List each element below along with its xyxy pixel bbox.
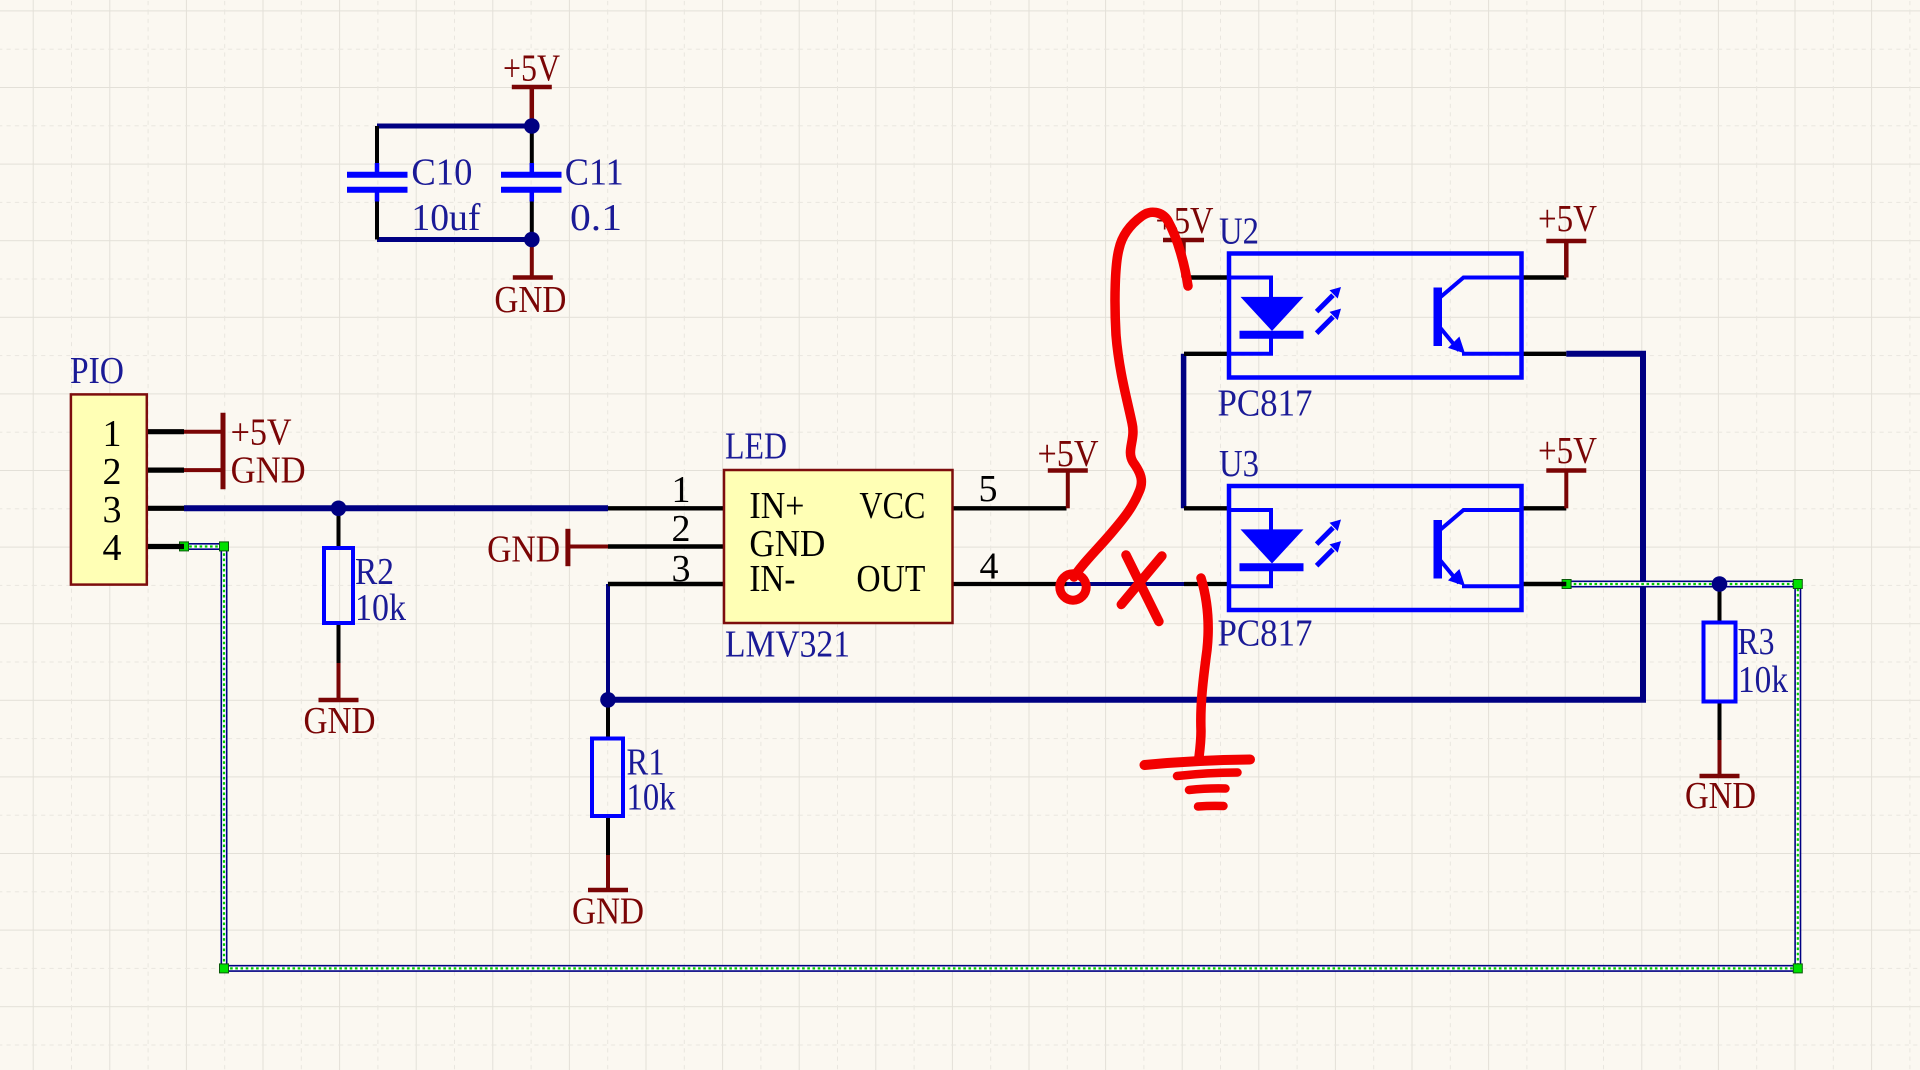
svg-text:+5V: +5V [1538,430,1597,472]
svg-text:VCC: VCC [859,485,925,527]
svg-text:2: 2 [103,451,122,493]
svg-text:C10: C10 [411,152,472,194]
svg-text:GND: GND [1685,775,1756,817]
svg-text:4: 4 [103,527,122,569]
svg-text:3: 3 [672,548,691,590]
svg-text:PC817: PC817 [1218,613,1313,655]
svg-text:U2: U2 [1219,211,1259,253]
svg-text:0.1: 0.1 [570,197,622,239]
svg-text:U3: U3 [1219,443,1259,485]
svg-text:2: 2 [672,508,691,550]
svg-text:PC817: PC817 [1218,383,1313,425]
svg-text:IN+: IN+ [749,485,804,527]
svg-text:OUT: OUT [856,558,925,600]
svg-text:3: 3 [103,489,122,531]
svg-text:GND: GND [572,891,644,933]
svg-text:GND: GND [231,450,306,492]
svg-text:GND: GND [494,279,566,321]
svg-text:+5V: +5V [1538,198,1597,240]
svg-text:+5V: +5V [231,412,292,454]
svg-text:10k: 10k [627,777,676,819]
svg-text:LMV321: LMV321 [725,624,850,666]
svg-text:PIO: PIO [70,350,124,392]
svg-text:+5V: +5V [1038,433,1099,475]
svg-text:C11: C11 [565,152,624,194]
svg-text:LED: LED [725,426,787,468]
svg-text:R3: R3 [1738,621,1775,663]
svg-text:4: 4 [980,546,999,588]
svg-text:5: 5 [979,468,998,510]
svg-text:10k: 10k [355,587,406,629]
svg-text:GND: GND [304,700,376,742]
svg-text:GND: GND [487,529,560,571]
svg-text:1: 1 [672,469,691,511]
svg-text:10k: 10k [1738,659,1788,701]
svg-text:10uf: 10uf [411,197,480,239]
svg-text:1: 1 [103,413,122,455]
svg-text:IN-: IN- [749,558,795,600]
svg-text:+5V: +5V [503,47,560,89]
